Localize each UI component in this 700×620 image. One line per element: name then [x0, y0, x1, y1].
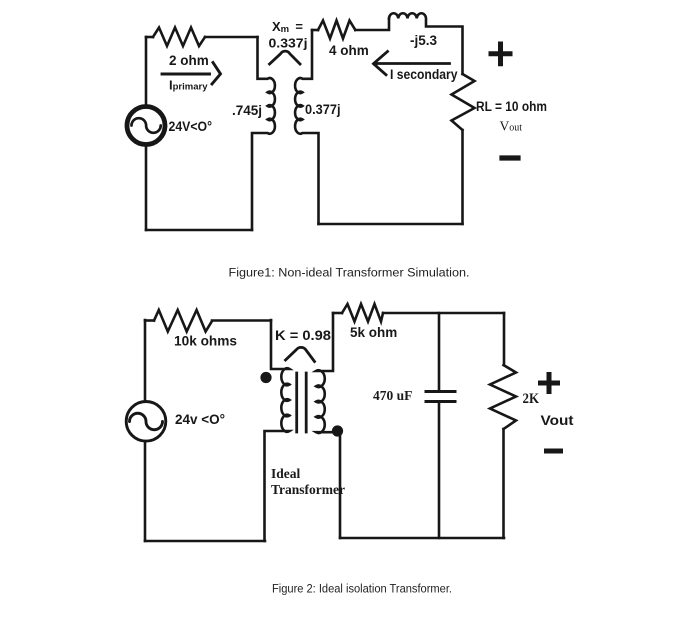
svg-text:K = 0.98: K = 0.98: [275, 328, 332, 343]
minus sign fig2: [547, 449, 561, 454]
coupling arc K: [286, 347, 315, 361]
wire: fig2 right vertical above 2K: [503, 313, 506, 365]
plus sign fig2: [541, 375, 558, 392]
polarity dot primary: [260, 372, 271, 383]
wire: fig1 top wire stub from left corner to resistor R1: [146, 36, 153, 39]
svg-text:Iprimary: Iprimary: [169, 78, 208, 93]
wire: capacitor bottom lead: [438, 402, 441, 538]
wire: fig2 top stub to 5k: [333, 312, 342, 315]
svg-text:Ideal: Ideal: [271, 466, 301, 481]
svg-text:5k ohm: 5k ohm: [350, 325, 397, 340]
polarity dot secondary: [332, 425, 343, 436]
svg-text:2 ohm: 2 ohm: [169, 53, 209, 68]
svg-text:Figure 2: Ideal isolation Tran: Figure 2: Ideal isolation Transformer.: [272, 582, 452, 596]
wire: fig2 bottom wire of primary loop: [145, 540, 265, 543]
arrow I secondary current direction: [374, 52, 450, 75]
svg-text:Xm =: Xm =: [272, 19, 303, 35]
ac source V2 24v: [126, 402, 166, 442]
inductor T1 primary winding: [265, 320, 290, 541]
resistor 2 ohm: [153, 28, 205, 47]
svg-text:4 ohm: 4 ohm: [329, 43, 369, 58]
wire: fig2 bottom wire of secondary loop: [340, 537, 504, 540]
svg-text:I secondary: I secondary: [390, 67, 458, 82]
wire: fig1 bottom wire of primary loop: [146, 229, 252, 232]
wire: fig1 top wire from resistor to primary coil branch: [205, 36, 258, 39]
svg-text:10k ohms: 10k ohms: [174, 334, 237, 349]
svg-text:-j5.3: -j5.3: [410, 33, 438, 48]
wire: fig1 left vertical from source bottom to bottom-left corner: [145, 146, 148, 230]
wire: fig1 left vertical from top wire to source top: [145, 37, 148, 105]
wire: fig2 left vertical from top wire to source: [144, 320, 147, 401]
capacitor 470uF: [426, 392, 455, 402]
svg-text:0.337j: 0.337j: [269, 36, 308, 51]
ac source V1 24V: [127, 107, 165, 145]
svg-text:24V<O°: 24V<O°: [169, 119, 213, 134]
svg-text:470 uF: 470 uF: [373, 388, 412, 403]
wire: fig2 left vertical from source to bottom: [144, 442, 147, 541]
wire: fig2 top wire from 5k to right corner: [383, 312, 504, 315]
svg-text:Vout: Vout: [541, 412, 574, 428]
svg-text:24v <O°: 24v <O°: [175, 412, 225, 427]
arrow Iprimary current direction: [162, 63, 221, 85]
inductor L2 secondary coil 0.377j: [295, 30, 318, 224]
wire: fig1 top wire between 4 ohm and inductor: [355, 19, 389, 31]
plus sign fig1: [491, 44, 510, 64]
resistor 10k: [154, 310, 212, 332]
resistor 4 ohm: [318, 21, 355, 39]
resistor 5k: [342, 304, 383, 322]
inductor T1 secondary winding: [316, 313, 340, 538]
svg-text:RL = 10 ohm: RL = 10 ohm: [476, 99, 547, 114]
transformer core lines: [297, 373, 307, 432]
resistor RL: [452, 74, 475, 130]
svg-text:.745j: .745j: [232, 103, 262, 118]
coupling arc Xm: [270, 51, 301, 64]
wire: fig1 top stub before 4 ohm: [312, 29, 318, 32]
wire: capacitor top lead: [438, 313, 441, 391]
svg-text:Figure1: Non-ideal Transformer: Figure1: Non-ideal Transformer Simulatio…: [229, 266, 470, 280]
inductor L1 primary coil .745j: [252, 37, 275, 230]
wire: fig1 right vertical below RL: [461, 130, 464, 224]
wire: fig2 top stub to 10k resistor: [145, 319, 154, 322]
resistor 2K: [490, 365, 516, 429]
svg-text:Transformer: Transformer: [271, 482, 345, 497]
svg-text:0.377j: 0.377j: [305, 102, 341, 117]
wire: fig2 top wire from 10k to transformer: [212, 319, 271, 322]
inductor -j5.3: [389, 13, 463, 74]
wire: fig2 right vertical below 2K: [502, 429, 505, 538]
wire: fig1 secondary bottom wire: [319, 223, 463, 226]
svg-text:2K: 2K: [523, 391, 540, 407]
svg-text:Vout: Vout: [500, 119, 523, 134]
minus sign fig1: [502, 155, 518, 160]
